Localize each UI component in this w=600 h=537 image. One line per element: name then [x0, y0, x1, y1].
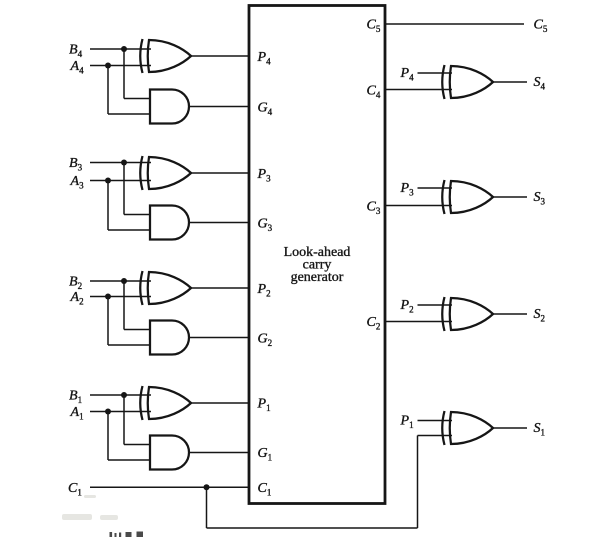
svg-text:generator: generator [291, 270, 344, 285]
